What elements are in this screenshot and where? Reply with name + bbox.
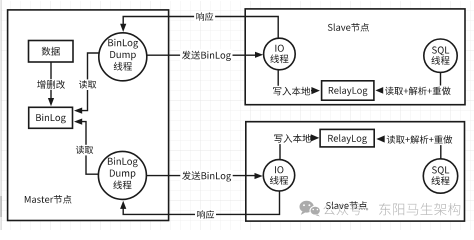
wire 读取+解析+重做 (bottom): SQL thread 2 -> RelayLog 2 bbox=[385, 139, 441, 159]
watermark wechat icon bbox=[300, 201, 321, 217]
wire 读取 (top): BinLog Dump thread -> BinLog bbox=[82, 53, 99, 111]
sql thread circle (top) bbox=[424, 39, 457, 72]
label IO 线程 (bottom circle) bbox=[275, 166, 283, 173]
wire 响应 (top): IO thread -> BinLog Dump thread bbox=[123, 17, 278, 39]
label 响应 (bottom) bbox=[195, 209, 216, 220]
label SQL 线程 (top circle) bbox=[432, 46, 449, 55]
wire 读取 (bottom): BinLog Dump thread 2 -> BinLog bbox=[82, 122, 98, 175]
relaylog box (bottom) bbox=[320, 129, 374, 147]
label 读取 (bottom) bbox=[74, 145, 95, 156]
label 发送BinLog (bottom) bbox=[180, 170, 232, 181]
relaylog box (top) bbox=[322, 81, 374, 100]
label SQL 线程 (bottom circle) bbox=[432, 166, 449, 175]
wire 写入本地 (top): IO thread -> RelayLog bbox=[278, 70, 314, 91]
label 发送BinLog (top) bbox=[180, 49, 232, 60]
data box 数据 bbox=[29, 41, 74, 63]
binlog box bbox=[29, 107, 73, 128]
label 增删改 bbox=[35, 79, 66, 90]
binlog dump thread circle (top) bbox=[99, 33, 147, 81]
label 写入本地 (top) bbox=[271, 86, 311, 97]
slave node container box (bottom) bbox=[246, 122, 465, 221]
label BinLog bbox=[36, 114, 66, 124]
master node container box bbox=[8, 10, 169, 221]
label BinLog Dump 线程 (bottom circle) bbox=[108, 157, 138, 167]
wire 发送BinLog (top): BinLog Dump thread -> IO thread bbox=[147, 54, 255, 56]
io thread circle (top) bbox=[264, 38, 296, 70]
label Slave节点 (bottom) bbox=[326, 201, 367, 210]
label BinLog Dump 线程 (top circle) bbox=[108, 39, 138, 49]
label 响应 (top) bbox=[194, 12, 215, 23]
label RelayLog (bottom) bbox=[328, 134, 367, 144]
sql thread circle (bottom) bbox=[423, 159, 457, 193]
io thread circle (bottom) bbox=[263, 160, 294, 191]
label 读取+解析+重做 (top) bbox=[383, 86, 452, 97]
binlog dump thread circle (bottom) bbox=[98, 151, 146, 199]
label Slave节点 (top) bbox=[328, 23, 369, 32]
label Master节点 bbox=[25, 195, 72, 204]
screenshot left edge artifact line bbox=[1, 0, 2, 230]
wire 增删改: 数据 -> BinLog bbox=[50, 62, 52, 98]
label 写入本地 (bottom) bbox=[272, 133, 312, 144]
wire 响应 (bottom): IO thread 2 -> BinLog Dump thread 2 bbox=[123, 191, 279, 214]
label 读取+解析+重做 (bottom) bbox=[385, 134, 454, 145]
watermark text 公众号·东阳马生架构 bbox=[323, 203, 361, 215]
wire 写入本地 (bottom): IO thread 2 -> RelayLog 2 bbox=[280, 138, 314, 160]
label 读取 (top) bbox=[77, 79, 98, 90]
slave node container box (top) bbox=[245, 9, 465, 105]
label RelayLog (top) bbox=[329, 86, 368, 96]
wire 读取+解析+重做 (top): SQL thread -> RelayLog bbox=[384, 72, 441, 90]
label 数据 bbox=[42, 47, 60, 56]
wire 发送BinLog (bottom): BinLog Dump thread 2 -> IO thread 2 bbox=[146, 175, 255, 177]
label IO 线程 (top circle) bbox=[275, 45, 283, 52]
